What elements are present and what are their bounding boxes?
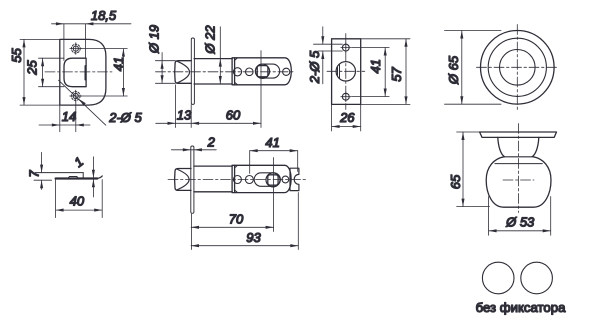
svg-text:55: 55 [9, 48, 24, 63]
svg-text:7: 7 [26, 170, 41, 178]
knob neck right profile [532, 137, 539, 156]
dimension 41 extension lines on plate [81, 48, 127, 50]
case hole 3 bottom view [282, 176, 289, 183]
svg-text:2: 2 [207, 134, 216, 149]
dimension 41 extension lines bottom view [249, 151, 251, 174]
spindle circle top view [255, 64, 269, 78]
strike box latch opening chords [337, 67, 339, 76]
case hole 2 top view [246, 68, 254, 76]
strike plate side view main profile [56, 177, 98, 179]
dimension 18,5 extension lines [63, 24, 65, 61]
svg-text:18,5: 18,5 [91, 8, 117, 23]
latch faceplate top view [191, 38, 194, 104]
dimension diameter 65 extension lines [445, 30, 502, 32]
svg-text:70: 70 [229, 212, 244, 227]
dimension 5 line and arrows on box [322, 27, 324, 44]
strike plate latch cutout [64, 58, 86, 86]
svg-text:40: 40 [70, 194, 85, 209]
dimension 14 extension lines [59, 105, 61, 132]
latch cylinder body bottom view [194, 165, 232, 167]
dimension 57 extension lines on box [361, 38, 410, 40]
knob ball top chord [495, 163, 542, 165]
svg-text:Ø 53: Ø 53 [505, 215, 535, 230]
dimension 40 extension lines [55, 180, 57, 218]
dimension diameter 65 line and arrows [461, 31, 463, 105]
rose vertical centerline [516, 25, 518, 111]
svg-text:Ø 65: Ø 65 [446, 55, 461, 85]
dimension 93 right extension line [297, 193, 299, 250]
svg-text:60: 60 [226, 108, 241, 123]
dimension 13 and 60 extension lines [175, 85, 177, 128]
knob ball outline [486, 157, 551, 207]
variant circle right [521, 262, 553, 294]
strike box bottom screw hole [342, 93, 349, 100]
dimension diameter 22 line and arrows [219, 27, 221, 84]
latch faceplate bottom view [191, 146, 194, 213]
dimension 57 line and arrows on box [405, 39, 407, 105]
dimension 2 line and arrows [171, 149, 216, 151]
svg-text:25: 25 [24, 60, 39, 76]
svg-text:Ø 22: Ø 22 [203, 25, 218, 55]
dimension 26 line and arrows on box [332, 126, 361, 128]
case slot top view [255, 64, 279, 78]
rose outer circle [481, 31, 555, 105]
dimension 41 line and arrows bottom view [250, 150, 298, 152]
knob horizontal centerline [503, 179, 534, 181]
knob neck left profile [498, 137, 505, 156]
svg-text:14: 14 [62, 109, 76, 124]
strike box latch opening circle [336, 62, 355, 81]
svg-text:2-Ø 5: 2-Ø 5 [108, 110, 142, 125]
dimension 1 line and arrows [92, 157, 94, 178]
tailpiece bracket bottom view [290, 168, 299, 190]
svg-text:57: 57 [389, 67, 404, 82]
dimension diameter 19 line and arrows [161, 53, 163, 84]
svg-text:1: 1 [71, 154, 86, 170]
dimension 70 line and arrows [191, 226, 274, 228]
strike box vertical centerline [345, 34, 347, 110]
variant circle left [482, 262, 514, 294]
dimension 26 extension lines on box [331, 104, 333, 131]
dimension 13 and 60 lines and arrows [156, 122, 261, 124]
svg-text:Ø 19: Ø 19 [147, 25, 162, 54]
svg-text:41: 41 [111, 57, 126, 71]
dimension 25 extension lines [39, 57, 65, 59]
dimension 25 line and arrows [42, 58, 44, 86]
rose inner circle [500, 50, 536, 86]
latch cylinder body top view [194, 58, 232, 60]
dimension 41 extension lines on box [352, 47, 390, 49]
latch case bottom view [232, 165, 291, 192]
spindle square hole top view [257, 66, 268, 77]
dimension 41 line and arrows on plate [122, 49, 124, 96]
strike box horizontal centerline [327, 70, 365, 72]
svg-text:41: 41 [368, 59, 383, 73]
svg-text:41: 41 [265, 135, 279, 150]
knob rose side view [480, 132, 557, 137]
spindle axis line top view [260, 51, 262, 128]
dimension diameter 53 extension lines [488, 197, 490, 236]
strike plate bottom screw hole [71, 92, 80, 101]
dimension 14 line and arrows [39, 124, 90, 126]
dimension 93 line and arrows [191, 245, 298, 247]
case hole 2 bottom view [245, 176, 253, 184]
dimension 18,5 line and arrows [52, 23, 132, 25]
dimension 40 line and arrows [56, 209, 103, 211]
svg-text:65: 65 [448, 174, 463, 189]
svg-text:без фиксатора: без фиксатора [476, 300, 566, 315]
latch centerline top view [156, 71, 296, 73]
rose horizontal centerline [477, 66, 559, 68]
dimension 65 extension lines on knob [457, 131, 480, 133]
dimension 7 extension line [34, 179, 52, 181]
latch case top view [232, 58, 291, 85]
case slot bottom view [254, 173, 280, 187]
dimension 5 extension lines on box [314, 43, 343, 45]
dimension diameter 19 extension lines [155, 60, 175, 62]
strike plate cutout tab edge [84, 66, 86, 80]
dimension diameter 53 line and arrows [489, 230, 551, 232]
strike plate horizontal centerline [45, 71, 112, 73]
svg-text:2-Ø 5: 2-Ø 5 [307, 50, 322, 84]
rose middle circle [488, 38, 546, 96]
strike box top screw hole [342, 44, 349, 51]
case hole 1 top view [233, 68, 241, 76]
latch bolt head bottom view [175, 169, 191, 191]
knob vertical centerline [518, 124, 520, 213]
svg-text:13: 13 [177, 108, 192, 123]
knob neck base line [504, 156, 534, 158]
latch centerline bottom view [168, 179, 307, 181]
strike plate side view tab bump [68, 177, 78, 179]
dimension 41 line and arrows on box [384, 48, 386, 97]
leader line 2-diameter-5 for screw holes [59, 80, 106, 125]
case hole 1 bottom view [233, 176, 241, 184]
strike plate side view top surface [35, 172, 83, 174]
case hole 3 top view [283, 68, 290, 75]
svg-text:93: 93 [246, 230, 261, 245]
spindle square hole bottom view [268, 175, 278, 185]
spindle axis line bottom view [273, 158, 275, 232]
dimension 7 line and arrows [41, 152, 43, 172]
svg-text:26: 26 [339, 110, 355, 125]
strike plate front view outline [60, 39, 106, 105]
dimension 65 line and arrows on knob [462, 132, 464, 207]
strike plate top screw hole [71, 44, 80, 53]
dimension 55 line and arrows [23, 39, 25, 105]
strike box outline [332, 39, 361, 105]
dimension 55 extension lines [20, 38, 60, 40]
dimension 70 and 93 left extension line [190, 214, 192, 250]
latch bolt head top view [175, 61, 192, 84]
